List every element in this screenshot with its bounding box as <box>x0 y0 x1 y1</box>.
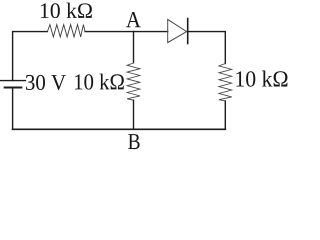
node B label <box>128 134 139 149</box>
wire: resistor R1 to node A <box>85 31 133 33</box>
resistor R3 (right, 10 kOhm) <box>219 64 232 102</box>
battery V1 positive plate (long) <box>1 80 26 82</box>
label: R1 value 10 kOhm <box>41 3 92 18</box>
wire: resistor R3 to bottom-right corner <box>224 101 226 129</box>
label: battery V1 value 30 V <box>26 75 66 90</box>
battery V1 negative plate (short, thick) <box>5 87 22 89</box>
resistor R1 (top, 10 kOhm) <box>47 25 85 37</box>
label: R3 value 10 kOhm <box>236 71 287 87</box>
wire: node A to diode D1 anode <box>134 31 168 33</box>
wire: diode D1 cathode to top-right corner <box>188 31 226 33</box>
wire: battery to bottom-left corner <box>12 88 14 129</box>
node A label <box>126 12 141 27</box>
label: R2 value 10 kOhm <box>75 74 124 90</box>
wire: middle branch, node A down to resistor R2 <box>133 32 135 63</box>
wire: top-left corner to resistor R1 <box>13 32 48 81</box>
diode D1 cathode bar <box>187 19 189 44</box>
diode D1 triangle (anode) <box>168 19 187 42</box>
wire: right branch, corner down to resistor R3 <box>224 32 226 64</box>
resistor R2 (middle, 10 kOhm) <box>127 63 140 100</box>
wire: bottom rail (node B) <box>13 128 226 130</box>
wire: resistor R2 to bottom rail at node B <box>133 100 135 129</box>
